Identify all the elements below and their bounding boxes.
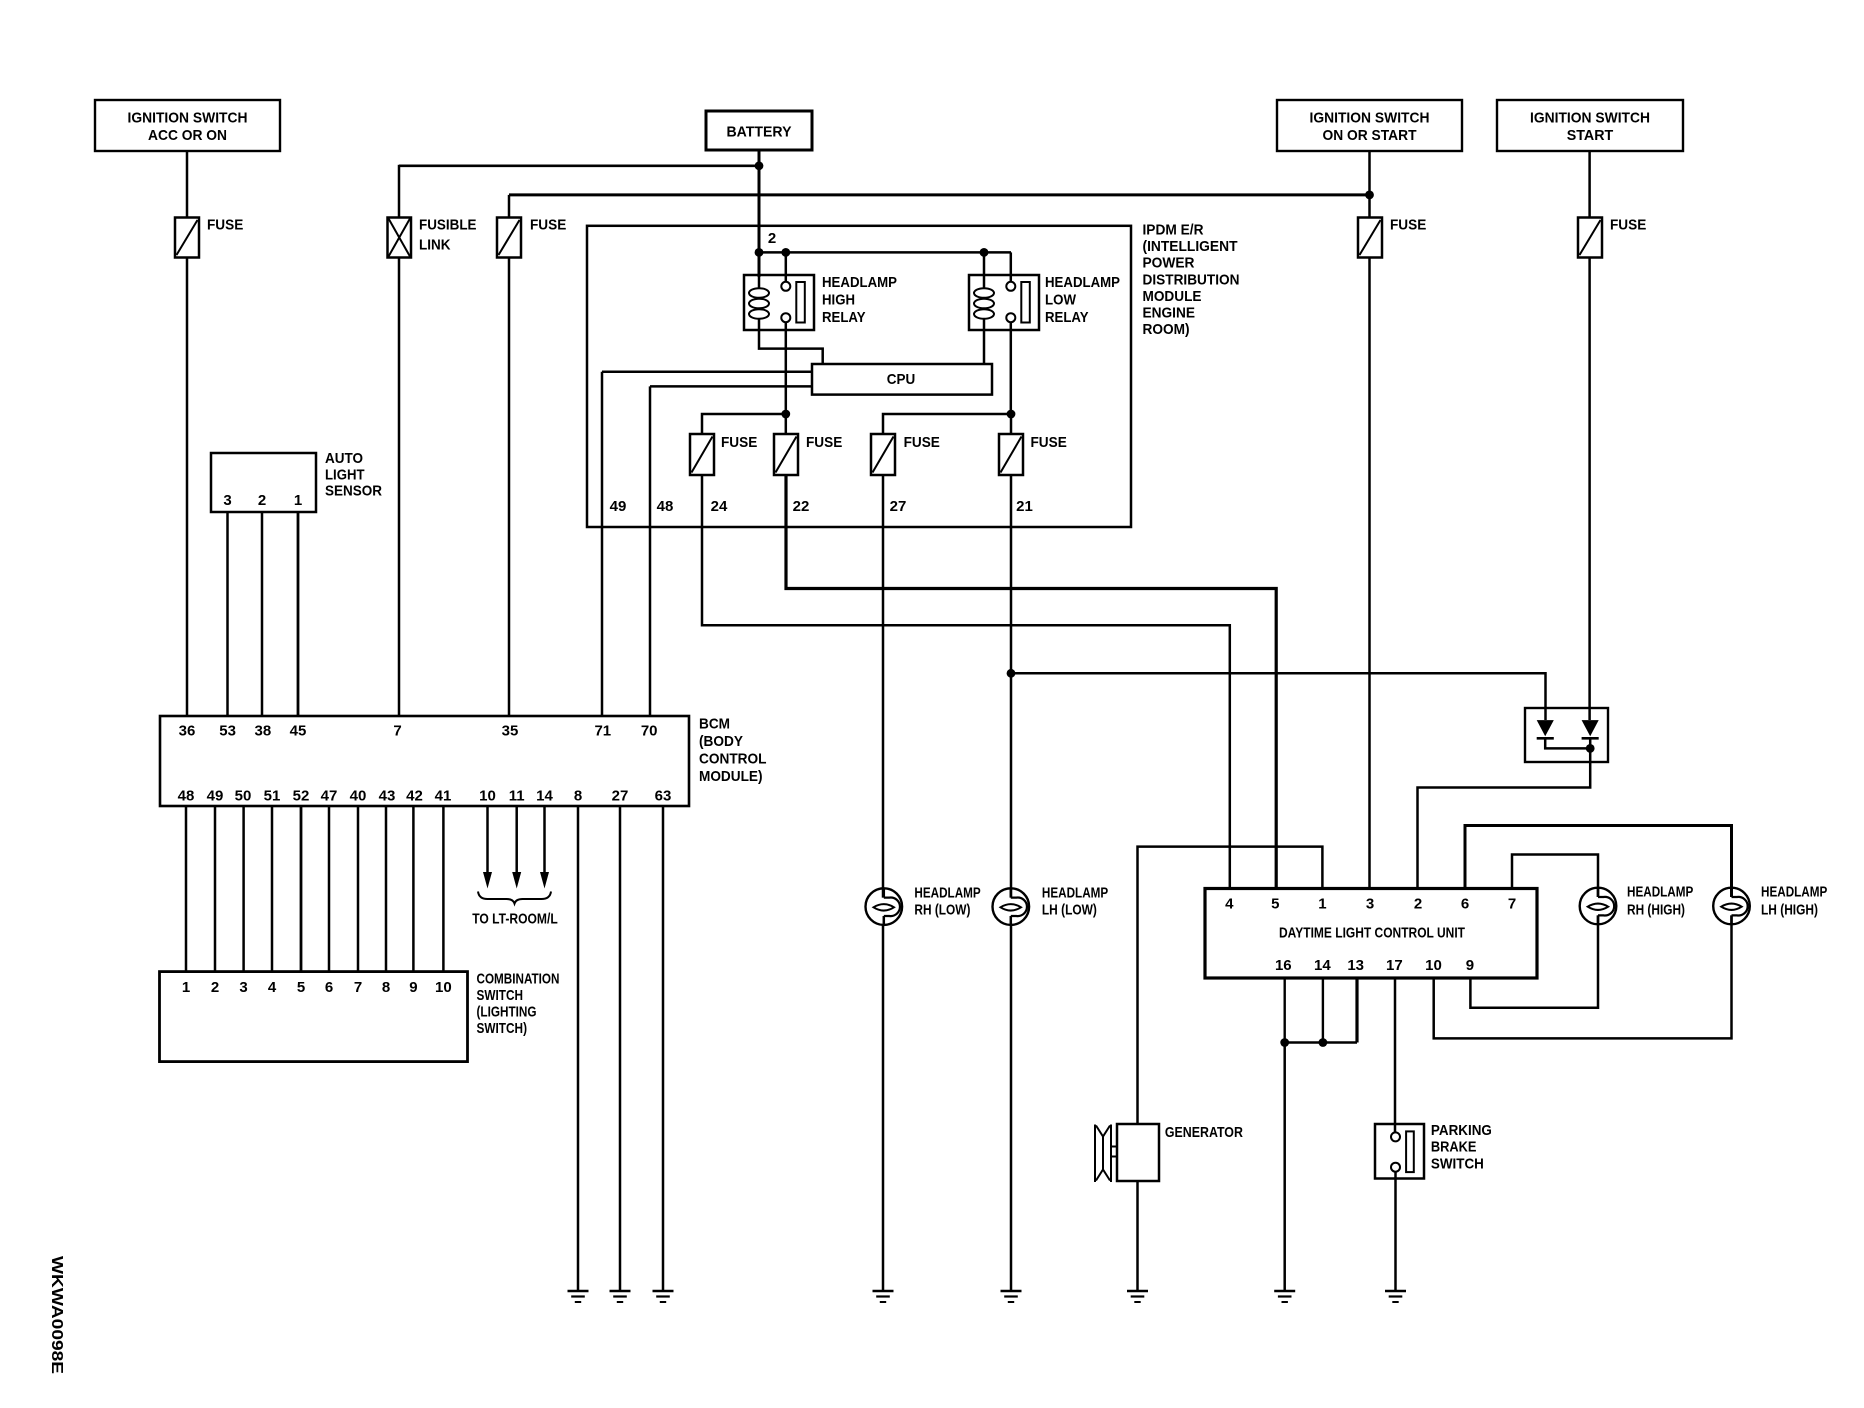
svg-text:TO LT-ROOM/L: TO LT-ROOM/L (472, 911, 558, 928)
svg-text:4: 4 (268, 979, 277, 996)
box IGNITION SWITCH START (1497, 100, 1683, 151)
wire BCM pin 27 to ground (619, 806, 622, 1291)
wire high relay coil to CPU (759, 319, 823, 365)
wire BCM pin 63 to ground (662, 806, 665, 1291)
ground (daytime 16/14/13) (1274, 1291, 1295, 1302)
svg-text:FUSE: FUSE (1610, 217, 1646, 234)
wire fusible link to BCM pin 7 (398, 258, 401, 717)
svg-text:5: 5 (297, 979, 305, 996)
wire fuse F8 to headlamp RH low (882, 475, 885, 898)
svg-text:FUSIBLE: FUSIBLE (419, 217, 477, 234)
wire to high relay contact (785, 252, 788, 281)
wire BCM pin 42 to combination switch pin 9 (412, 806, 415, 972)
wire daytime pin 16 down (1283, 978, 1285, 1043)
svg-text:47: 47 (321, 787, 338, 804)
svg-text:38: 38 (255, 723, 272, 740)
svg-text:ON OR START: ON OR START (1323, 127, 1417, 144)
svg-text:DAYTIME LIGHT CONTROL UNIT: DAYTIME LIGHT CONTROL UNIT (1279, 925, 1465, 942)
wire battery to fusible link (399, 165, 759, 168)
parking brake switch (1375, 1122, 1492, 1179)
svg-text:AUTO: AUTO (325, 450, 363, 467)
diode D1 to D2 link (1545, 738, 1590, 748)
box IPDM E/R (INTELLIGENT POWER DISTRIBUTION MODULE ENGINE ROOM) (587, 222, 1240, 528)
svg-text:FUSE: FUSE (530, 217, 566, 234)
node pin16 junction (1280, 1038, 1289, 1047)
svg-text:42: 42 (406, 787, 423, 804)
wire daytime pin 14 down (1322, 978, 1324, 1043)
svg-text:IGNITION SWITCH: IGNITION SWITCH (1530, 110, 1650, 127)
wire BCM pin 14 arrow to LT-ROOM/L (540, 806, 549, 889)
svg-text:3: 3 (239, 979, 247, 996)
wire sensor pin 3 to BCM 53 (226, 512, 229, 716)
svg-text:HIGH: HIGH (822, 291, 855, 308)
svg-text:START: START (1567, 127, 1614, 144)
svg-text:50: 50 (235, 787, 252, 804)
wire BCM pin 51 to combination switch pin 4 (271, 806, 274, 972)
node relay feed junction (755, 248, 764, 257)
svg-text:6: 6 (1461, 895, 1469, 912)
svg-text:10: 10 (479, 787, 496, 804)
svg-text:51: 51 (264, 787, 281, 804)
wire BCM pin 47 to combination switch pin 6 (328, 806, 331, 972)
wire bus to ground (1283, 1043, 1286, 1292)
svg-text:2: 2 (258, 492, 266, 509)
svg-text:ROOM): ROOM) (1143, 321, 1190, 338)
fuse F9 (21) (999, 434, 1067, 475)
wire daytime pin 17 to parking brake switch (1394, 978, 1397, 1132)
svg-text:27: 27 (612, 787, 629, 804)
wire BCM pin 49 to combination switch pin 2 (214, 806, 217, 972)
wire fuse F6 to daytime pin 4 (702, 475, 1230, 889)
svg-text:8: 8 (382, 979, 390, 996)
wire bulb RH low to ground (882, 925, 885, 1291)
wire junction to fuse F6 (702, 414, 786, 434)
wire BCM pin 41 to combination switch pin 10 (442, 806, 445, 972)
svg-text:MODULE: MODULE (1143, 288, 1202, 305)
wire IGN ON/START to fuse F4 (1368, 151, 1371, 218)
svg-text:14: 14 (536, 787, 553, 804)
ground (BCM pin 8) (568, 1291, 589, 1302)
wire to low relay coil (983, 252, 986, 288)
svg-text:IGNITION SWITCH: IGNITION SWITCH (1310, 110, 1430, 127)
box AUTO LIGHT SENSOR (211, 450, 382, 512)
wire to low relay contact (1010, 252, 1013, 281)
fuse F6 (24) (690, 434, 757, 475)
svg-text:BRAKE: BRAKE (1431, 1139, 1477, 1156)
svg-text:BATTERY: BATTERY (727, 124, 792, 141)
wire IGN START to fuse F5 (1588, 151, 1591, 218)
wire BCM pin 52 to combination switch pin 5 (300, 806, 303, 972)
wire CPU 48 to BCM pin 70 (649, 386, 652, 716)
svg-text:35: 35 (502, 723, 519, 740)
svg-text:LH (HIGH): LH (HIGH) (1761, 901, 1818, 918)
svg-text:24: 24 (711, 498, 728, 515)
wire sensor pin 2 to BCM 38 (261, 512, 264, 716)
svg-text:RELAY: RELAY (1045, 309, 1089, 326)
svg-text:1: 1 (1318, 895, 1326, 912)
wire bulb LH low to ground (1010, 925, 1013, 1291)
svg-text:LH (LOW): LH (LOW) (1042, 902, 1097, 919)
diode D2 (1582, 720, 1599, 736)
wire relay bus (759, 251, 1011, 254)
svg-text:45: 45 (290, 723, 307, 740)
wire IGN ACC to fuse F1 (186, 151, 189, 218)
svg-text:HEADLAMP: HEADLAMP (822, 274, 897, 291)
wire fuse F3 to BCM pin 35 (508, 258, 511, 717)
wire fuse F4 to daytime pin 3 (1368, 258, 1371, 889)
svg-text:70: 70 (641, 723, 658, 740)
wire parking brake switch to ground (1394, 1172, 1397, 1291)
svg-text:SWITCH): SWITCH) (477, 1020, 528, 1037)
wire CPU pin 49 stub (602, 371, 812, 374)
wire down to fuse F3 (508, 195, 511, 218)
generator (1095, 1124, 1243, 1182)
wire junction to fuse F7 (785, 414, 788, 434)
svg-text:9: 9 (1466, 957, 1474, 974)
svg-text:16: 16 (1275, 957, 1292, 974)
relay HEADLAMP HIGH RELAY (744, 274, 897, 330)
wire headlamp RH high to daytime pin 9 (1470, 915, 1598, 1007)
fuse F8 (27) (871, 434, 940, 475)
svg-text:14: 14 (1314, 957, 1331, 974)
svg-text:FUSE: FUSE (1031, 434, 1067, 451)
svg-text:8: 8 (574, 787, 582, 804)
wire high relay coil entry (758, 275, 761, 288)
svg-text:FUSE: FUSE (721, 434, 757, 451)
node fuse 27/21 junction (1007, 410, 1016, 419)
svg-text:1: 1 (182, 979, 190, 996)
svg-text:SWITCH: SWITCH (477, 987, 524, 1004)
ground (headlamp LH low) (1001, 1291, 1022, 1302)
svg-text:FUSE: FUSE (207, 217, 243, 234)
svg-text:7: 7 (354, 979, 362, 996)
svg-text:SENSOR: SENSOR (325, 483, 382, 500)
wire BCM pin 8 to ground (577, 806, 580, 1291)
ground (headlamp RH low) (873, 1291, 894, 1302)
wire daytime pin 13 down (1355, 978, 1358, 1043)
wire fuse F5 to right diode (1588, 258, 1591, 721)
svg-text:3: 3 (1366, 895, 1374, 912)
wire fuse F7 to daytime pin 5 (786, 475, 1276, 889)
svg-text:FUSE: FUSE (1390, 217, 1426, 234)
relay HEADLAMP LOW RELAY (969, 274, 1120, 330)
wire junction to fuse F9 (1010, 414, 1013, 434)
svg-text:MODULE): MODULE) (699, 768, 763, 785)
box IGNITION SWITCH ON OR START (1277, 100, 1462, 151)
svg-text:27: 27 (890, 498, 907, 515)
svg-text:LINK: LINK (419, 237, 451, 254)
svg-text:HEADLAMP: HEADLAMP (1045, 274, 1120, 291)
svg-text:36: 36 (179, 723, 196, 740)
wire bus to ignition on/start (509, 193, 1370, 196)
wire high relay contact to junction (785, 322, 788, 414)
svg-text:HEADLAMP: HEADLAMP (914, 885, 980, 902)
node fuse 24/22 junction (781, 410, 790, 419)
svg-text:CONTROL: CONTROL (699, 751, 767, 768)
svg-text:FUSE: FUSE (904, 434, 940, 451)
wire BCM pin 10 arrow to LT-ROOM/L (483, 806, 492, 889)
fuse F3 (497, 217, 566, 258)
fuse F1 (175, 217, 243, 258)
diode D1 (1537, 720, 1554, 736)
svg-text:5: 5 (1271, 895, 1279, 912)
node diode branch junction (1007, 669, 1016, 678)
svg-text:48: 48 (657, 498, 674, 515)
svg-text:11: 11 (509, 787, 525, 804)
svg-text:BCM: BCM (699, 716, 730, 733)
node ign on/start junction (1365, 191, 1374, 200)
svg-text:HEADLAMP: HEADLAMP (1761, 883, 1827, 900)
svg-text:COMBINATION: COMBINATION (477, 970, 560, 987)
wire daytime pin 7 to headlamp RH high (1512, 855, 1598, 898)
svg-text:FUSE: FUSE (806, 434, 842, 451)
svg-text:HEADLAMP: HEADLAMP (1627, 883, 1693, 900)
svg-text:RH (HIGH): RH (HIGH) (1627, 901, 1685, 918)
bulb HEADLAMP LH (HIGH) (1713, 883, 1827, 924)
svg-text:GENERATOR: GENERATOR (1165, 1124, 1243, 1141)
svg-text:7: 7 (393, 723, 401, 740)
wire CPU 49 to BCM pin 71 (601, 372, 604, 716)
svg-text:LOW: LOW (1045, 291, 1077, 308)
svg-text:7: 7 (1508, 895, 1516, 912)
node high relay contact branch (781, 248, 790, 257)
svg-text:CPU: CPU (887, 371, 916, 388)
svg-text:13: 13 (1347, 957, 1364, 974)
node battery junction (755, 161, 764, 170)
wire pins 16/14/13 bus (1285, 1041, 1357, 1044)
wire fuse F9 down (1010, 475, 1013, 898)
svg-text:63: 63 (655, 787, 672, 804)
svg-text:4: 4 (1225, 895, 1234, 912)
svg-text:2: 2 (768, 230, 776, 247)
fuse F5 (1578, 217, 1646, 258)
svg-text:22: 22 (793, 498, 810, 515)
wire BCM pin 40 to combination switch pin 7 (357, 806, 360, 972)
bulb HEADLAMP LH (LOW) (993, 885, 1109, 926)
svg-text:WKWA0098E: WKWA0098E (48, 1256, 65, 1374)
fusible link (388, 217, 477, 258)
box COMBINATION SWITCH (LIGHTING SWITCH) (160, 970, 560, 1061)
svg-text:RH (LOW): RH (LOW) (914, 902, 970, 919)
svg-text:40: 40 (350, 787, 367, 804)
svg-text:PARKING: PARKING (1431, 1122, 1492, 1139)
svg-text:49: 49 (610, 498, 627, 515)
svg-text:9: 9 (409, 979, 417, 996)
svg-text:21: 21 (1016, 498, 1033, 515)
svg-text:2: 2 (211, 979, 219, 996)
svg-text:IPDM E/R: IPDM E/R (1143, 222, 1204, 239)
node diode output junction (1586, 744, 1595, 753)
bulb HEADLAMP RH (HIGH) (1580, 883, 1694, 924)
wire generator to ground (1136, 1181, 1139, 1291)
ground (BCM pin 63) (653, 1291, 674, 1302)
svg-text:(BODY: (BODY (699, 733, 743, 750)
wire BCM pin 50 to combination switch pin 3 (242, 806, 245, 972)
svg-text:2: 2 (1414, 895, 1422, 912)
wire BCM pin 48 to combination switch pin 1 (185, 806, 188, 972)
wire low relay coil to CPU (983, 319, 986, 365)
svg-text:41: 41 (435, 787, 452, 804)
node low relay coil branch (980, 248, 989, 257)
svg-text:IGNITION SWITCH: IGNITION SWITCH (128, 110, 248, 127)
box BATTERY (706, 111, 812, 150)
diode block (1525, 708, 1608, 762)
wire diode output to daytime pin 2 (1418, 762, 1591, 889)
wire CPU pin 48 stub (650, 385, 812, 388)
svg-text:HEADLAMP: HEADLAMP (1042, 885, 1108, 902)
svg-text:(INTELLIGENT: (INTELLIGENT (1143, 238, 1238, 255)
svg-text:49: 49 (207, 787, 224, 804)
svg-text:(LIGHTING: (LIGHTING (477, 1003, 537, 1020)
wire junction to left diode (1011, 673, 1546, 720)
svg-text:1: 1 (294, 492, 302, 509)
svg-text:43: 43 (379, 787, 396, 804)
node pin14 junction (1319, 1038, 1328, 1047)
ground (BCM pin 27) (610, 1291, 631, 1302)
svg-text:53: 53 (219, 723, 236, 740)
ground (generator) (1127, 1291, 1148, 1302)
svg-text:SWITCH: SWITCH (1431, 1155, 1484, 1172)
fuse F7 (22) (774, 434, 842, 475)
svg-text:ACC OR ON: ACC OR ON (148, 127, 227, 144)
bulb HEADLAMP RH (LOW) (866, 885, 981, 926)
wire battery vertical (758, 150, 761, 277)
wire daytime pin 6 to headlamp LH high (1465, 826, 1732, 898)
svg-text:RELAY: RELAY (822, 309, 866, 326)
svg-text:48: 48 (178, 787, 195, 804)
box DAYTIME LIGHT CONTROL UNIT (1205, 889, 1537, 979)
wire BCM pin 43 to combination switch pin 8 (385, 806, 388, 972)
svg-text:ENGINE: ENGINE (1143, 305, 1196, 322)
svg-text:71: 71 (594, 723, 611, 740)
svg-text:POWER: POWER (1143, 255, 1195, 272)
wire daytime pin 1 to generator (1138, 847, 1323, 1124)
svg-text:3: 3 (223, 492, 231, 509)
wire headlamp LH high to daytime pin 10 (1434, 915, 1732, 1038)
wire down to fusible link (398, 165, 401, 218)
wire low relay contact to junction (1010, 322, 1013, 414)
svg-text:DISTRIBUTION: DISTRIBUTION (1143, 271, 1240, 288)
box CPU (812, 364, 992, 395)
box IGNITION SWITCH ACC OR ON (95, 100, 280, 151)
svg-text:17: 17 (1386, 957, 1403, 974)
svg-text:10: 10 (1425, 957, 1442, 974)
svg-text:6: 6 (325, 979, 333, 996)
svg-text:52: 52 (293, 787, 310, 804)
svg-text:10: 10 (435, 979, 452, 996)
wire sensor pin 1 to BCM 45 (297, 512, 300, 716)
wire fuse F1 to BCM pin 36 (186, 258, 189, 717)
wire BCM pin 11 arrow to LT-ROOM/L (512, 806, 521, 889)
fuse F4 (1358, 217, 1426, 258)
wire junction to fuse F8 (883, 414, 1011, 434)
svg-text:LIGHT: LIGHT (325, 466, 365, 483)
brace TO LT-ROOM/L (472, 892, 558, 928)
box BCM (BODY CONTROL MODULE) (160, 716, 767, 807)
ground (parking brake switch) (1385, 1291, 1406, 1302)
